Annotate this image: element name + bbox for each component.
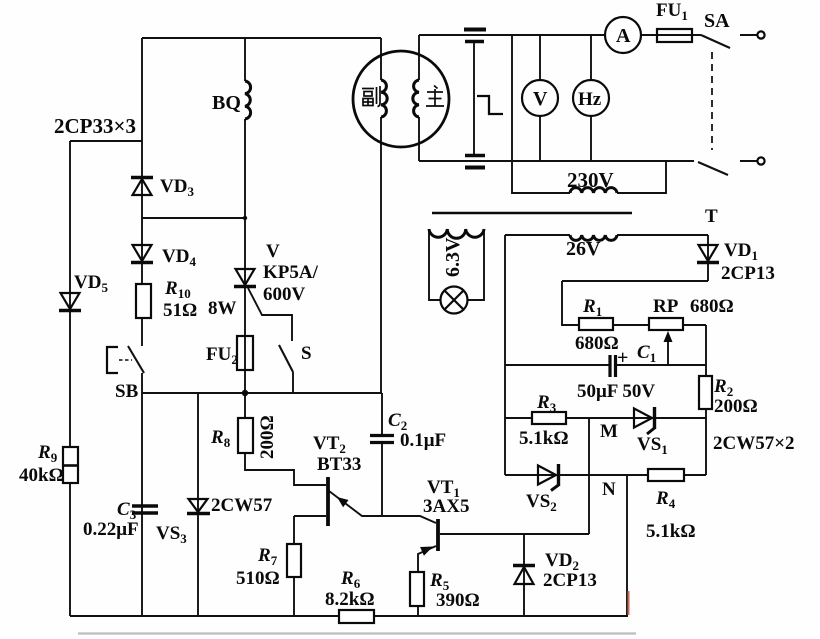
svg-text:BT33: BT33 <box>317 454 361 475</box>
svg-text:SB: SB <box>115 381 139 402</box>
svg-text:200Ω: 200Ω <box>257 415 278 459</box>
svg-text:0.22μF: 0.22μF <box>83 519 139 540</box>
svg-text:3AX5: 3AX5 <box>423 496 469 517</box>
svg-text:T: T <box>705 206 718 227</box>
svg-text:2CP13: 2CP13 <box>721 263 775 284</box>
svg-text:8W: 8W <box>208 298 237 319</box>
svg-text:600V: 600V <box>263 284 306 305</box>
svg-text:50μF 50V: 50μF 50V <box>577 381 655 402</box>
svg-text:200Ω: 200Ω <box>714 396 758 417</box>
svg-text:KP5A/: KP5A/ <box>263 262 319 283</box>
svg-text:V: V <box>533 88 548 110</box>
svg-text:BQ: BQ <box>212 92 241 114</box>
svg-text:0.1μF: 0.1μF <box>400 430 446 451</box>
svg-text:6.3V: 6.3V <box>442 237 464 277</box>
svg-text:Hz: Hz <box>578 89 602 110</box>
svg-text:5.1kΩ: 5.1kΩ <box>519 428 569 449</box>
svg-text:230V: 230V <box>567 168 614 192</box>
svg-text:A: A <box>616 25 631 47</box>
svg-text:5.1kΩ: 5.1kΩ <box>646 521 696 542</box>
svg-text:40kΩ: 40kΩ <box>19 465 64 486</box>
svg-text:V: V <box>266 241 280 262</box>
svg-text:680Ω: 680Ω <box>690 296 734 317</box>
svg-text:51Ω: 51Ω <box>163 300 197 321</box>
svg-text:26V: 26V <box>566 238 601 260</box>
svg-text:+: + <box>617 347 628 369</box>
svg-text:510Ω: 510Ω <box>236 568 280 589</box>
svg-text:2CP33×3: 2CP33×3 <box>54 114 136 138</box>
svg-text:680Ω: 680Ω <box>575 333 619 354</box>
svg-text:2CW57: 2CW57 <box>211 495 273 516</box>
svg-text:SA: SA <box>704 10 730 32</box>
svg-text:390Ω: 390Ω <box>436 590 480 611</box>
svg-text:N: N <box>602 479 616 500</box>
svg-text:M: M <box>600 421 618 442</box>
svg-text:8.2kΩ: 8.2kΩ <box>325 589 375 610</box>
svg-text:2CP13: 2CP13 <box>543 570 597 591</box>
svg-text:S: S <box>301 343 312 364</box>
svg-text:RP: RP <box>653 296 679 317</box>
svg-text:2CW57×2: 2CW57×2 <box>713 433 795 454</box>
